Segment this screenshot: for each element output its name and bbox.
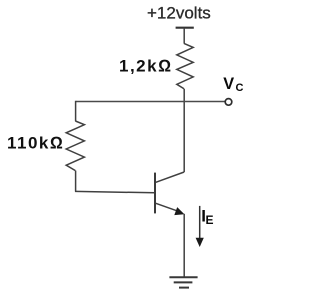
wire emitter down to ground — [183, 214, 185, 277]
svg-text:1,2kΩ: 1,2kΩ — [119, 57, 173, 76]
svg-text:E: E — [206, 213, 214, 227]
resistor R2 110k zigzag — [66, 121, 84, 171]
svg-text:110kΩ: 110kΩ — [7, 134, 64, 153]
transistor Q1 collector lead — [156, 172, 184, 182]
transistor Q1 emitter lead with arrow — [156, 203, 178, 211]
terminal Vc circle — [225, 99, 232, 106]
resistor R1 1,2k zigzag — [177, 43, 193, 88]
ground bar 1 — [169, 276, 197, 278]
ground bar 2 — [174, 281, 193, 283]
wire left corner down to R2 — [75, 101, 77, 121]
wire R1 to collector corner (through node) — [183, 89, 185, 172]
current arrow IE — [199, 206, 201, 240]
svg-text:V: V — [223, 75, 234, 93]
wire supply to R1 — [183, 28, 185, 44]
svg-text:+12volts: +12volts — [147, 3, 211, 22]
supply terminal bar — [176, 27, 194, 29]
wire base — [75, 191, 155, 192]
ground bar 3 — [179, 287, 189, 289]
svg-text:C: C — [236, 82, 244, 94]
wire R2 to base corner — [75, 171, 77, 192]
transistor Q1 base bar — [154, 173, 156, 214]
wire node to Vc terminal — [76, 101, 226, 103]
